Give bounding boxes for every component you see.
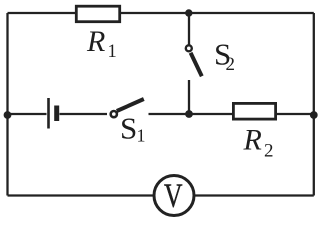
svg-text:V: V <box>164 177 183 214</box>
svg-text:R: R <box>86 25 105 58</box>
svg-text:1: 1 <box>108 42 117 62</box>
svg-text:1: 1 <box>137 125 146 145</box>
svg-text:R: R <box>243 123 262 156</box>
svg-text:2: 2 <box>264 141 274 162</box>
svg-text:2: 2 <box>226 54 236 75</box>
svg-text:S: S <box>120 111 137 146</box>
